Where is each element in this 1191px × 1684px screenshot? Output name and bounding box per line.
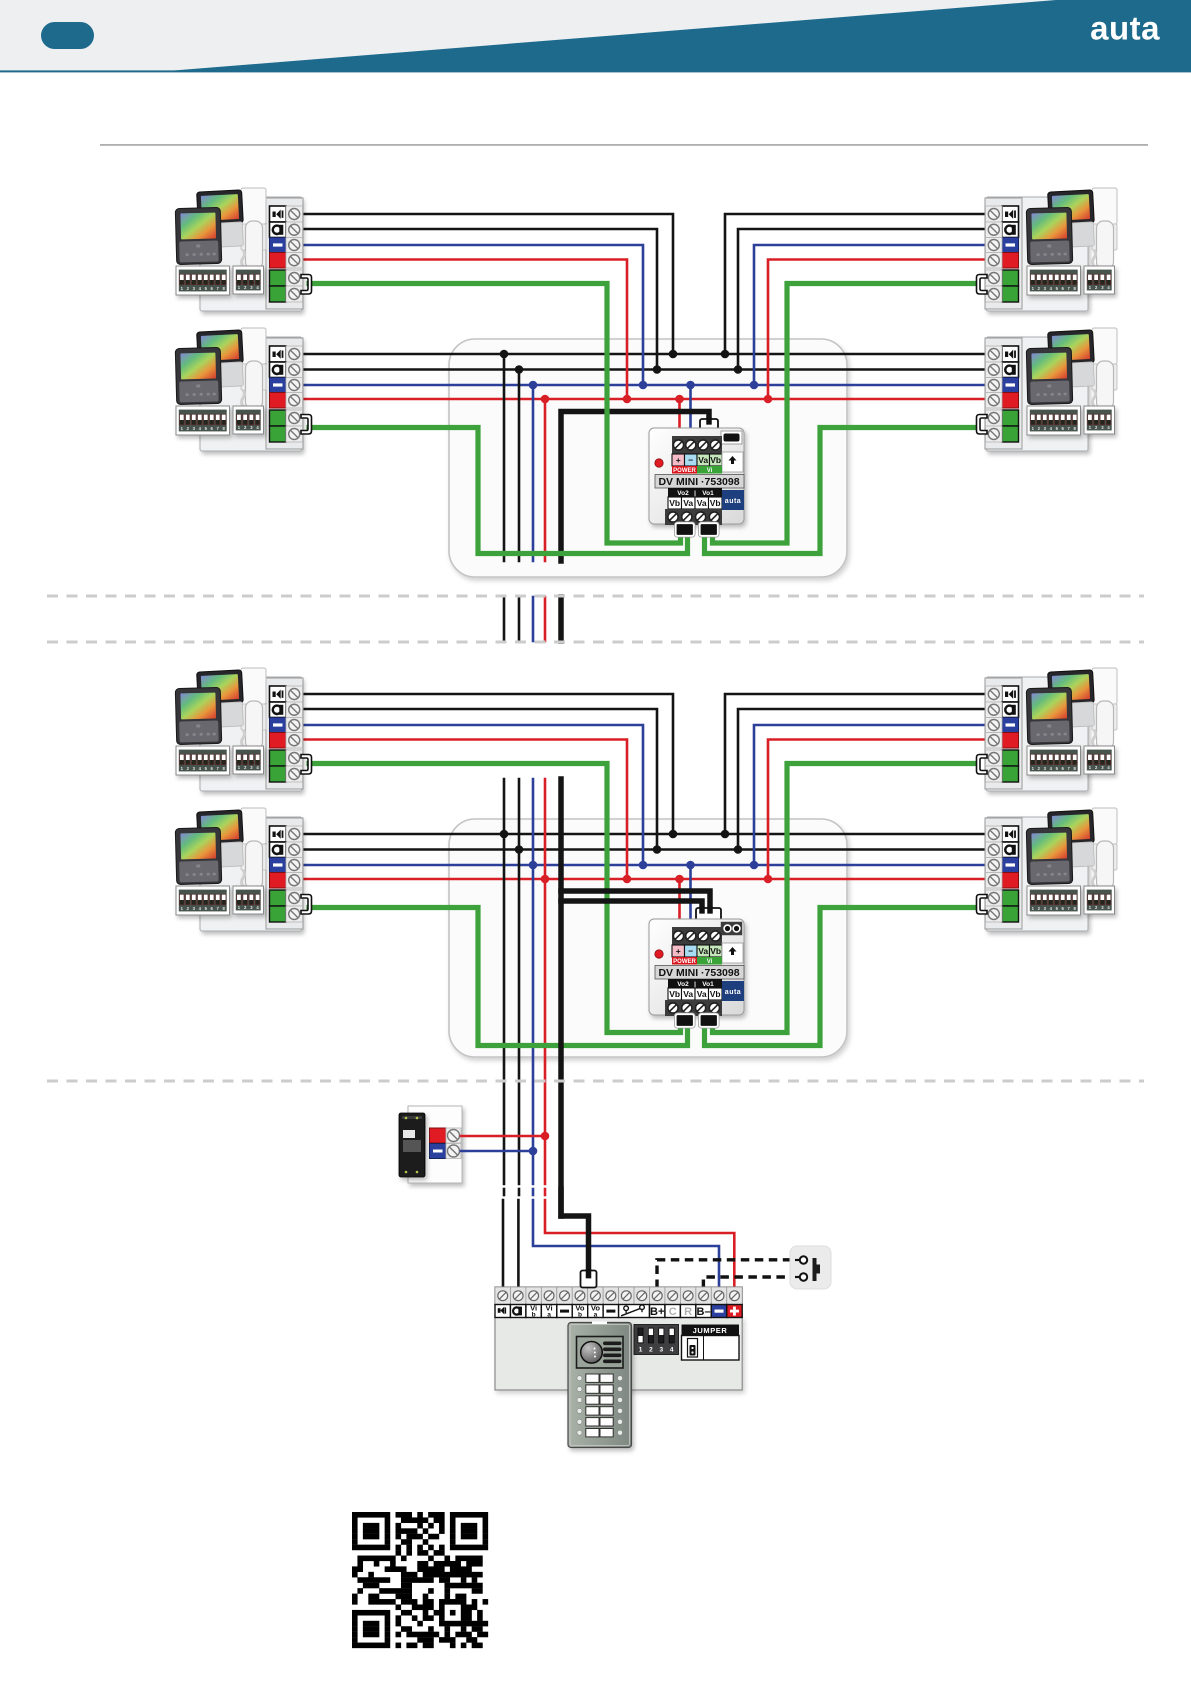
riser cable break marks — [503, 1189, 506, 1195]
svg-text:Va: Va — [698, 455, 708, 465]
svg-text:POWER: POWER — [673, 468, 696, 474]
door station terminal strip — [495, 1287, 742, 1305]
monitor cluster E — [175, 668, 311, 791]
svg-text:auta: auta — [725, 989, 741, 996]
wire: audio bus 2 (black) — [302, 368, 986, 371]
svg-text:POWER: POWER — [673, 959, 696, 965]
svg-text:Vo2: Vo2 — [677, 981, 689, 988]
floor separator dashed lines — [47, 595, 1144, 598]
power supply unit — [408, 1106, 462, 1183]
riser cables section 1 — [503, 354, 506, 561]
svg-text:4: 4 — [670, 1347, 674, 1354]
svg-text:+: + — [676, 455, 681, 465]
wire: video green monitor D — [705, 428, 978, 554]
svg-text:Vb: Vb — [669, 989, 680, 999]
wire: positive bus (red) — [302, 398, 986, 401]
distribution box section 1 — [449, 339, 847, 577]
svg-text:Va: Va — [683, 989, 693, 999]
door release striker — [790, 1246, 831, 1289]
module output sleeves — [676, 523, 695, 536]
svg-text:DV MINI ·753098: DV MINI ·753098 — [658, 476, 739, 488]
wire: video green monitor B — [309, 908, 688, 1046]
QR code — [352, 1512, 488, 1648]
title rule — [100, 144, 1148, 145]
svg-text:−: − — [688, 455, 693, 465]
monitor cluster G — [977, 677, 1089, 791]
svg-text:Va: Va — [683, 498, 693, 508]
svg-text:Vb: Vb — [710, 946, 721, 956]
svg-text:Vo1: Vo1 — [702, 490, 714, 497]
svg-text:b: b — [578, 1311, 582, 1318]
distribution box section 2 — [449, 819, 847, 1057]
DV MINI distributor module section 1 — [700, 419, 718, 432]
svg-text:a: a — [594, 1311, 598, 1318]
wire: monitor top-left to bus — [302, 214, 673, 354]
svg-text:B–: B– — [697, 1306, 711, 1318]
svg-text:Vo1: Vo1 — [702, 981, 714, 988]
svg-text:Vi: Vi — [707, 959, 713, 965]
monitor cluster B — [175, 328, 311, 451]
DV MINI distributor module section 2 — [696, 908, 721, 921]
wire: monitor top-right to bus — [725, 214, 986, 354]
header band — [0, 0, 1191, 72]
svg-text:3: 3 — [659, 1347, 663, 1354]
svg-text:b: b — [532, 1311, 536, 1318]
door panel with camera — [568, 1322, 632, 1448]
svg-text:DV MINI ·753098: DV MINI ·753098 — [658, 967, 739, 979]
door station body — [495, 1317, 742, 1390]
svg-text:R: R — [684, 1306, 692, 1318]
svg-text:Vb: Vb — [710, 455, 721, 465]
wire: video green monitor B — [309, 428, 688, 554]
wire: video green monitor D — [705, 908, 978, 1046]
wire: PSU + red — [461, 1135, 545, 1138]
door terminal labels — [495, 1305, 510, 1318]
door DIP switches — [634, 1325, 679, 1355]
svg-text:Vo2: Vo2 — [677, 490, 689, 497]
module output sleeves — [676, 1014, 695, 1027]
junction dots — [500, 830, 509, 839]
svg-text:Va: Va — [698, 946, 708, 956]
monitor cluster C — [977, 197, 1089, 311]
svg-text:1: 1 — [639, 1347, 643, 1354]
svg-text:|: | — [694, 490, 696, 497]
wire: positive bus (red) — [302, 878, 986, 881]
wire: coax video bus thick black — [561, 412, 709, 562]
wire: audio bus 1 (black) — [302, 833, 986, 836]
monitor cluster D — [977, 337, 1089, 451]
svg-text:Vi: Vi — [707, 468, 713, 474]
header pill — [41, 22, 94, 49]
wire: video green monitor C — [713, 284, 978, 544]
coax connector at door — [581, 1271, 597, 1288]
svg-text:Vb: Vb — [669, 498, 680, 508]
svg-text:Vb: Vb — [710, 498, 721, 508]
svg-text:JUMPER: JUMPER — [693, 1326, 728, 1335]
wire: door release dashed — [657, 1260, 791, 1288]
wire: coax video bus thick black — [558, 779, 564, 1216]
wire: module power blue — [689, 385, 692, 432]
wire: video green monitor A — [309, 764, 681, 1033]
monitor cluster A — [175, 188, 311, 311]
svg-text:−: − — [688, 946, 693, 956]
wire: module power red — [678, 879, 681, 923]
svg-text:Vb: Vb — [710, 989, 721, 999]
monitor cluster H — [977, 817, 1089, 931]
wire: module power red — [678, 399, 681, 432]
svg-text:Va: Va — [697, 498, 707, 508]
svg-text:auta: auta — [725, 498, 741, 505]
svg-text:C: C — [669, 1306, 677, 1318]
svg-text:|: | — [694, 981, 696, 988]
svg-text:a: a — [547, 1311, 551, 1318]
svg-text:+: + — [676, 946, 681, 956]
wire: module power blue — [689, 865, 692, 923]
wire: video green monitor A — [309, 284, 681, 544]
riser cables section 2 — [503, 779, 506, 1184]
wire: audio bus 1 (black) — [302, 353, 986, 356]
wire: negative bus (blue) — [302, 864, 986, 867]
junction dots — [500, 350, 509, 359]
wire: riser to door station — [502, 1200, 505, 1288]
door jumper block — [682, 1325, 740, 1336]
wire: negative bus (blue) — [302, 384, 986, 387]
svg-text:Va: Va — [697, 989, 707, 999]
riser cables between floors — [503, 597, 506, 641]
wire: monitor top-left to bus — [302, 694, 673, 834]
monitor cluster F — [175, 808, 311, 931]
svg-text:auta: auta — [1090, 10, 1160, 47]
wire: monitor top-right to bus — [725, 694, 986, 834]
wire: PSU - blue — [461, 1150, 533, 1153]
wire: video green monitor C — [713, 764, 978, 1033]
wire: audio bus 2 (black) — [302, 848, 986, 851]
svg-text:2: 2 — [649, 1347, 653, 1354]
svg-text:B+: B+ — [650, 1306, 664, 1318]
